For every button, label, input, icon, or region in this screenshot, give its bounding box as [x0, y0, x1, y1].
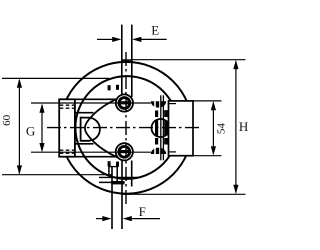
svg-text:H: H	[239, 119, 248, 134]
top tab face	[122, 59, 132, 61]
left block bottom edge extension	[75, 156, 116, 158]
screw top	[116, 94, 133, 111]
svg-text:60: 60	[1, 114, 13, 126]
inner shell circle	[75, 76, 178, 179]
top tab line right	[131, 25, 133, 97]
bottom tab inner edge right	[116, 167, 118, 182]
terminal block	[169, 101, 194, 156]
left block top edge extension	[75, 98, 116, 100]
contact slot vertical left	[160, 95, 162, 160]
54 extension bottom	[193, 155, 222, 157]
black mark above top screw left	[108, 85, 111, 90]
H extension top	[132, 59, 246, 61]
screw center line top (G top)	[31, 102, 151, 104]
svg-text:54: 54	[216, 123, 228, 135]
extension line 60 top	[2, 77, 109, 79]
dim 54 line	[212, 103, 214, 155]
cavity step top	[75, 112, 94, 114]
top tab line left	[121, 25, 123, 95]
block hatch top	[60, 104, 75, 106]
extension line 60 bottom	[2, 174, 112, 176]
bottom tab line mid	[121, 160, 123, 229]
lamp window flat edge	[80, 117, 82, 142]
side entry D-circle	[152, 119, 170, 137]
bottom tab inner edge left	[108, 167, 110, 175]
dim H line	[235, 62, 237, 193]
terminal shelf bottom	[169, 151, 177, 153]
black mark below bottom screw right	[116, 162, 119, 167]
54 extension top	[193, 100, 222, 102]
svg-text:F: F	[139, 204, 146, 219]
H extension bottom	[121, 193, 246, 195]
contact bowl top	[151, 101, 166, 107]
block hatch bottom	[60, 149, 75, 151]
vertical centerline	[125, 52, 127, 207]
contact bowl bottom	[151, 148, 166, 154]
dim 60 line	[18, 80, 20, 174]
dim F right arrow	[131, 218, 160, 220]
contact hatch bar mid right	[164, 121, 168, 136]
dim E left arrow	[97, 38, 113, 40]
dim E right arrow	[140, 38, 167, 40]
contact hatch bar upper left	[155, 111, 158, 118]
terminal shelf top	[169, 103, 177, 105]
contact slot vertical right	[162, 95, 164, 160]
bottom skirt chord	[99, 176, 138, 178]
bottom tab inner top edge	[108, 166, 118, 168]
cavity step bottom	[75, 143, 94, 145]
bottom tab line right	[131, 161, 133, 187]
black mark above top screw right	[116, 85, 119, 90]
contact hatch bar lower left	[155, 138, 158, 145]
cavity arc (big C)	[85, 98, 118, 157]
screw bottom	[116, 143, 133, 160]
bottom tab line left	[111, 167, 113, 230]
outer shell circle	[60, 62, 192, 194]
contact hatch bar lower right	[164, 138, 168, 145]
svg-text:E: E	[151, 23, 159, 38]
bottom tab shoulder	[99, 181, 125, 183]
contact hatch bar mid left	[155, 121, 158, 136]
left block body	[59, 99, 75, 156]
horizontal centerline	[47, 127, 201, 129]
svg-text:G: G	[26, 123, 35, 138]
screw center line bottom (G bottom)	[31, 151, 151, 153]
dim G line	[41, 105, 43, 151]
bottom tab hatched core	[111, 181, 124, 184]
contact hatch bar upper right	[164, 110, 168, 117]
black mark below bottom screw left	[108, 161, 111, 166]
lamp window D-hole	[81, 118, 100, 141]
dim F left arrow	[96, 218, 103, 220]
